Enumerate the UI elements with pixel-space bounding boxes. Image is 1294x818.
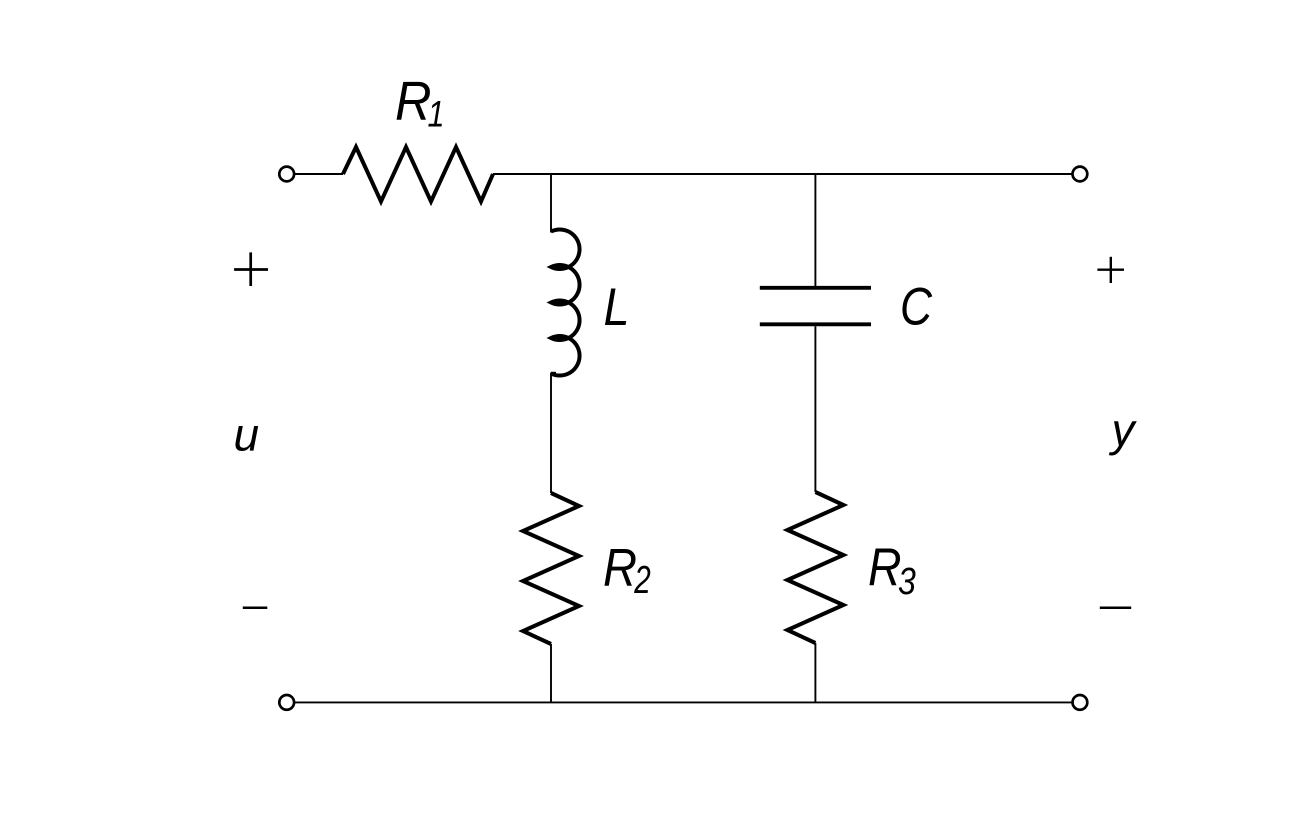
inductor L junction stubs (551, 267, 560, 373)
svg-text:C: C (900, 278, 933, 337)
resistor R2 (523, 493, 579, 644)
wire top rail left segment (294, 173, 343, 175)
capacitor C bottom plate (760, 322, 871, 326)
svg-text:u: u (234, 409, 260, 461)
terminal bottom-left (279, 695, 294, 710)
svg-text:L: L (604, 278, 630, 337)
wire branch L top (550, 174, 552, 233)
svg-text:R: R (603, 538, 637, 597)
svg-text:2: 2 (634, 559, 651, 602)
terminal top-right (1073, 167, 1088, 182)
resistor R1 (343, 147, 493, 202)
svg-text:R: R (395, 69, 432, 131)
wire top rail right segment (493, 173, 1072, 175)
wire C to R3 (814, 326, 816, 492)
svg-text:R: R (868, 538, 902, 597)
svg-text:3: 3 (898, 561, 916, 603)
wire R3 to bottom rail (814, 643, 816, 702)
wire branch C top (814, 174, 816, 286)
svg-text:y: y (1109, 404, 1138, 456)
wire bottom rail (294, 701, 1072, 703)
svg-text:1: 1 (428, 94, 445, 135)
terminal bottom-right (1073, 695, 1088, 710)
plus sign left (234, 252, 268, 286)
plus sign right (1097, 257, 1124, 283)
minus sign right (1100, 606, 1131, 609)
minus sign left (243, 607, 267, 610)
resistor R3 (787, 492, 843, 643)
terminal top-left (279, 167, 294, 182)
wire R2 to bottom rail (550, 644, 552, 702)
capacitor C top plate (760, 286, 871, 290)
inductor L (551, 229, 580, 375)
wire branch L to R2 (550, 373, 552, 494)
